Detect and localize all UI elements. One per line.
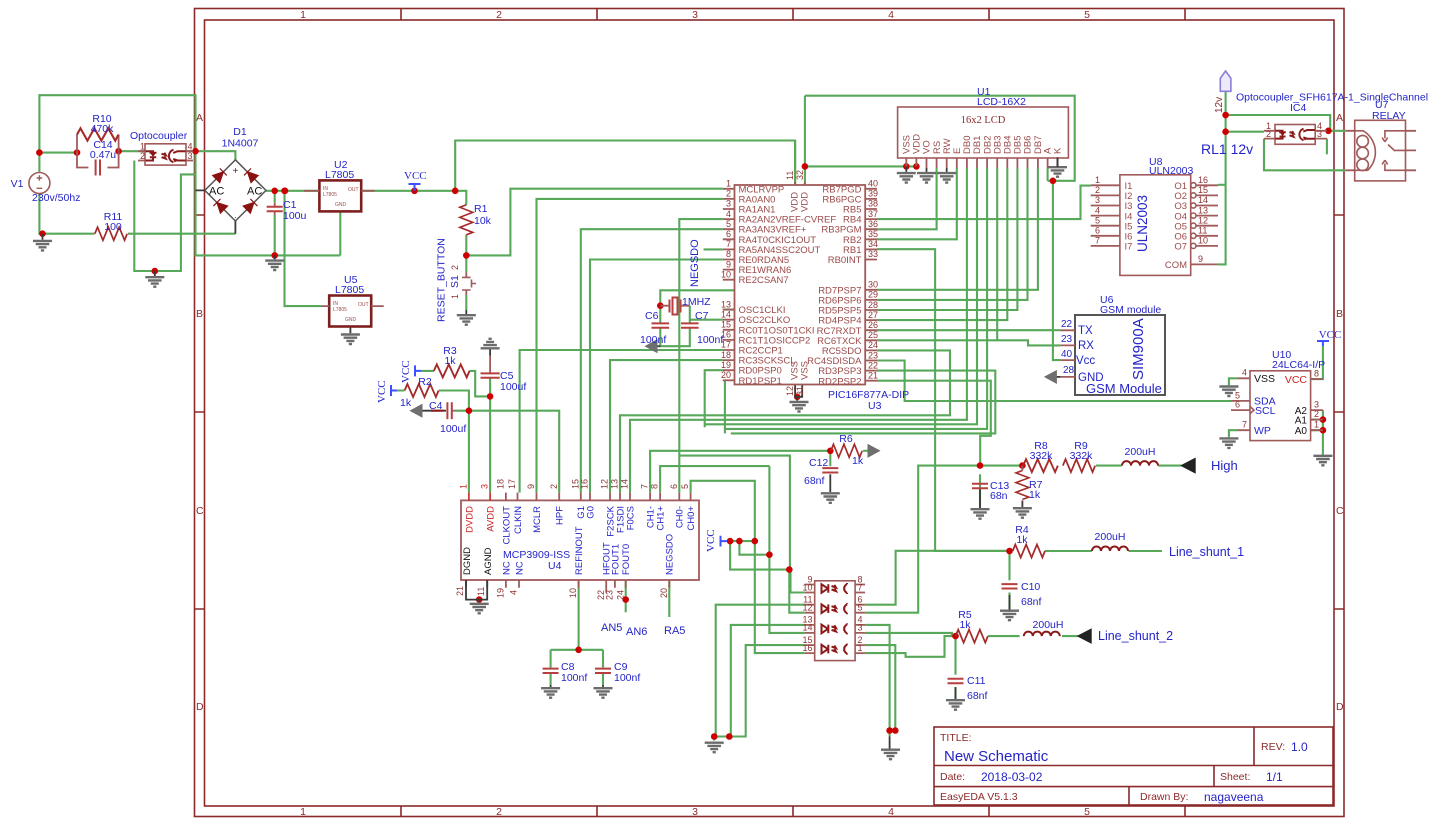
svg-text:14: 14 — [721, 309, 731, 319]
svg-text:CH0-: CH0- — [675, 506, 686, 528]
svg-text:1: 1 — [1095, 175, 1100, 185]
wire net K down to GSM Vcc — [1053, 181, 1061, 360]
svg-text:COM: COM — [1165, 260, 1187, 271]
svg-text:5: 5 — [1084, 806, 1090, 818]
svg-text:VSS: VSS — [799, 361, 810, 380]
svg-text:G0: G0 — [585, 506, 596, 519]
ground LCD VSS — [897, 166, 916, 182]
svg-text:2: 2 — [1266, 129, 1271, 139]
svg-text:3: 3 — [1314, 400, 1319, 410]
wire PIC pin34 RB1 down to R4 — [877, 249, 1010, 551]
wire C6 top to crystal left — [659, 306, 661, 324]
svg-text:17: 17 — [507, 479, 517, 489]
svg-text:RD1PSP1: RD1PSP1 — [739, 376, 782, 387]
svg-text:DGND: DGND — [462, 547, 473, 575]
svg-text:200uH: 200uH — [1125, 446, 1156, 458]
capacitor C13 — [972, 480, 1009, 502]
svg-text:0.47u: 0.47u — [90, 149, 116, 161]
svg-text:3: 3 — [692, 9, 698, 21]
svg-text:RB0INT: RB0INT — [828, 255, 862, 266]
wire PIC pin37 RB4 to ULN I1 — [877, 186, 1091, 220]
resistor R3 — [434, 345, 470, 377]
wire PIC pin8 RE0 down to G0 — [590, 260, 723, 493]
svg-text:1k: 1k — [959, 619, 971, 631]
svg-text:10: 10 — [721, 269, 731, 279]
svg-text:RA5: RA5 — [664, 625, 685, 637]
svg-text:A: A — [1336, 112, 1343, 124]
svg-text:5: 5 — [726, 219, 731, 229]
border frame outer — [195, 9, 1345, 817]
capacitor C14 — [77, 139, 119, 176]
svg-text:12: 12 — [600, 479, 610, 489]
svg-text:1MHZ: 1MHZ — [682, 296, 711, 308]
svg-text:21: 21 — [455, 586, 465, 596]
svg-text:4: 4 — [726, 209, 731, 219]
svg-text:GSM Module: GSM Module — [1086, 381, 1162, 396]
wire 12v to IC4 pin4 relay wire — [1226, 115, 1331, 131]
ground quad left — [705, 743, 724, 753]
wire PIC VDD pin32 — [804, 166, 806, 185]
svg-text:O7: O7 — [1174, 242, 1187, 253]
switch S1 reset button — [436, 238, 477, 322]
svg-text:29: 29 — [868, 290, 878, 300]
svg-text:TX: TX — [1078, 325, 1093, 337]
svg-text:2018-03-02: 2018-03-02 — [981, 770, 1043, 784]
svg-text:2: 2 — [450, 265, 460, 270]
svg-text:5: 5 — [1084, 9, 1090, 21]
svg-text:470k: 470k — [91, 123, 115, 135]
ground C11 — [946, 687, 965, 710]
svg-text:3: 3 — [726, 199, 731, 209]
svg-text:30: 30 — [868, 280, 878, 290]
wire R5 chain — [988, 635, 1078, 637]
wire C10 stem — [1008, 551, 1010, 612]
wire 12v flag stem — [1218, 91, 1226, 264]
capacitor C9 — [595, 661, 640, 684]
left pin leads — [723, 189, 735, 380]
svg-text:4: 4 — [1095, 205, 1100, 215]
top VDD leads — [795, 182, 805, 185]
wire IC4 pin4 to relay — [1327, 130, 1346, 132]
svg-text:15: 15 — [1198, 185, 1208, 195]
svg-text:FOUT0: FOUT0 — [621, 544, 632, 575]
wire C4 node right to HPF — [455, 411, 559, 493]
svg-text:AC: AC — [209, 186, 224, 198]
svg-text:100nf: 100nf — [697, 334, 723, 346]
ground LCD K — [1048, 157, 1067, 177]
capacitor C6 — [640, 310, 669, 346]
svg-text:B: B — [196, 308, 203, 320]
wire bridge right to U2 IN — [266, 190, 319, 192]
net flag VCC (U10) — [1317, 329, 1341, 346]
svg-text:Vcc: Vcc — [1076, 355, 1095, 367]
svg-text:13: 13 — [721, 299, 731, 309]
wire ULN O1 to 12v stem — [1218, 184, 1226, 186]
net flag VCC (U4 cluster) — [705, 529, 727, 552]
svg-text:230v/50hz: 230v/50hz — [32, 192, 80, 204]
svg-text:Sheet:: Sheet: — [1220, 771, 1250, 783]
svg-text:6: 6 — [1095, 226, 1100, 236]
wire PIC pin23 SDA to U10 — [877, 361, 1231, 402]
svg-text:1k: 1k — [1029, 489, 1041, 501]
svg-text:28: 28 — [868, 300, 878, 310]
wire C14/R10 right node to optocoupler pin1 — [119, 150, 145, 152]
wire quad pin11 down — [716, 605, 805, 737]
svg-text:6: 6 — [1235, 400, 1240, 410]
svg-text:L7805: L7805 — [333, 307, 347, 313]
svg-text:68n: 68n — [990, 490, 1008, 502]
svg-text:MCLR: MCLR — [532, 506, 543, 533]
wire PIC pin26 TX — [877, 329, 1060, 331]
svg-text:OUT: OUT — [348, 187, 359, 193]
wire VCC node up to long top wire to PIC pin1 region — [455, 141, 795, 191]
svg-text:CLKOUT: CLKOUT — [501, 506, 512, 545]
ground LCD RW — [937, 168, 956, 183]
resistor R6 — [831, 433, 864, 467]
svg-text:C: C — [1336, 505, 1344, 517]
svg-text:High: High — [1211, 458, 1238, 473]
regulator U5 L7805 — [321, 274, 384, 327]
svg-text:9: 9 — [1198, 254, 1203, 264]
wire quad pin2 down to gnd — [865, 645, 895, 730]
svg-text:16: 16 — [802, 643, 812, 653]
top pin names rotated inside — [464, 505, 697, 544]
wire PIC pin4 RA2 down to CH0- — [679, 219, 790, 569]
wire top rail LCD to right 1074 — [805, 96, 1075, 181]
svg-text:C7: C7 — [695, 310, 709, 322]
svg-text:13: 13 — [1198, 205, 1208, 215]
svg-text:1: 1 — [726, 179, 731, 189]
svg-text:Line_shunt_2: Line_shunt_2 — [1098, 629, 1173, 643]
svg-text:4: 4 — [509, 590, 519, 595]
ground C8 — [541, 685, 560, 698]
svg-text:EasyEDA V5.1.3: EasyEDA V5.1.3 — [940, 791, 1018, 803]
svg-text:Date:: Date: — [940, 771, 965, 783]
svg-text:11: 11 — [1198, 226, 1207, 236]
svg-text:5: 5 — [1095, 215, 1100, 225]
svg-text:A1: A1 — [1295, 416, 1308, 427]
ground U10 A0A1A2 — [1313, 456, 1332, 466]
svg-text:RD2PSP2: RD2PSP2 — [818, 376, 861, 387]
wire crystal to OSC1 pin13 — [660, 290, 760, 309]
svg-text:11: 11 — [476, 587, 486, 596]
resistor R4 — [1013, 524, 1045, 558]
svg-text:26: 26 — [868, 320, 878, 330]
svg-text:FOUT1: FOUT1 — [610, 544, 621, 575]
svg-text:VCC: VCC — [1319, 329, 1342, 341]
ground opto net — [145, 271, 164, 287]
svg-text:GSM module: GSM module — [1100, 304, 1161, 316]
svg-text:VSS: VSS — [1254, 373, 1275, 385]
wire PIC pin25 RX — [877, 340, 1060, 345]
svg-text:12: 12 — [802, 603, 812, 613]
svg-text:12v: 12v — [1214, 97, 1225, 113]
svg-text:100nf: 100nf — [640, 334, 666, 346]
svg-text:1k: 1k — [1016, 534, 1028, 546]
capacitor C5 — [481, 356, 527, 394]
svg-text:200uH: 200uH — [1095, 531, 1126, 543]
ruler row ticks right — [1334, 215, 1344, 609]
svg-text:7: 7 — [1242, 420, 1247, 430]
net flag 12v — [1214, 71, 1231, 113]
svg-text:23: 23 — [1061, 334, 1073, 345]
wire C1 down to gnd wire — [274, 191, 276, 256]
svg-text:4: 4 — [1242, 368, 1247, 378]
ground arrow GSM GND — [1045, 371, 1061, 383]
svg-text:+: + — [232, 166, 238, 177]
wire PIC pin24 RC5 to bus F1SDI — [620, 350, 950, 492]
ground above C5 (inverted) — [481, 339, 500, 356]
wire U2 OUT to R1 top, VCC — [361, 191, 466, 205]
ruler numbers bottom — [300, 806, 1090, 818]
svg-text:20: 20 — [721, 370, 731, 380]
svg-text:.: . — [234, 210, 237, 220]
svg-text:WP: WP — [1254, 425, 1271, 437]
wire LCD DB4 to PIC pin27 — [877, 168, 1007, 320]
svg-text:31: 31 — [795, 386, 805, 396]
ground arrow C6 — [646, 340, 661, 352]
wire quad pin6 up to R4 line — [865, 551, 1009, 605]
svg-text:332k: 332k — [1030, 450, 1054, 462]
wire LCD DB7 to PIC pin30 — [877, 168, 1038, 290]
wire U2 GND down — [339, 211, 341, 255]
svg-text:1.0: 1.0 — [1291, 740, 1308, 754]
svg-text:Optocoupler: Optocoupler — [130, 130, 188, 142]
capacitor C11 — [948, 675, 988, 702]
ground U10 WP — [1219, 438, 1238, 448]
wire R2 to C4 node — [397, 391, 469, 411]
svg-text:VCC: VCC — [404, 170, 427, 182]
ground U5 — [341, 326, 360, 344]
svg-text:AN5: AN5 — [601, 622, 622, 634]
svg-text:LCD-16X2: LCD-16X2 — [977, 96, 1026, 108]
ground C12 — [821, 474, 840, 503]
wire LCD A pin down — [1047, 168, 1049, 181]
wire IC4 pin3 down — [1326, 139, 1328, 155]
svg-text:2: 2 — [1095, 185, 1100, 195]
wire quad pin1 to R5 via jog — [865, 636, 952, 657]
wire LCD DB1 down to bus — [705, 168, 977, 424]
wire optocoupler pin2 down and around — [134, 161, 195, 272]
svg-text:12: 12 — [785, 386, 795, 396]
svg-text:K: K — [1053, 147, 1064, 154]
svg-text:S1: S1 — [449, 275, 461, 288]
svg-text:D1: D1 — [233, 126, 247, 138]
ground U10 VSS — [1219, 387, 1238, 397]
svg-text:1k: 1k — [444, 355, 456, 367]
svg-text:7: 7 — [858, 582, 863, 592]
svg-text:11: 11 — [785, 171, 795, 180]
resistor R9 — [1063, 440, 1095, 472]
regulator U2 L7805 — [304, 159, 375, 212]
svg-text:CH0+: CH0+ — [686, 506, 697, 531]
svg-text:VDD: VDD — [799, 192, 810, 212]
arrow flag High — [1181, 458, 1238, 473]
svg-text:A0: A0 — [1295, 426, 1308, 437]
svg-text:SCL: SCL — [1255, 405, 1276, 417]
svg-text:100nf: 100nf — [561, 672, 587, 684]
wire U10 VSS to gnd — [1229, 378, 1238, 437]
svg-text:14: 14 — [620, 479, 630, 489]
svg-text:SIM900A: SIM900A — [1130, 318, 1147, 380]
wire PIC VDD pin11 — [794, 141, 796, 186]
wire LCD DB5 to PIC pin28 — [877, 168, 1017, 310]
crystal X1 1MHZ — [660, 296, 711, 315]
svg-text:8: 8 — [650, 484, 660, 489]
svg-text:15: 15 — [721, 320, 731, 330]
svg-text:RELAY: RELAY — [1372, 110, 1406, 122]
svg-text:12: 12 — [1198, 215, 1208, 225]
svg-text:23: 23 — [868, 350, 878, 360]
ground S1 — [457, 310, 476, 325]
svg-text:F0CS: F0CS — [625, 506, 636, 530]
wire C13 stem lower — [979, 474, 981, 510]
wire PIC pin19 RD0 down to bus — [705, 370, 723, 427]
wire High chain — [918, 466, 1022, 613]
svg-text:100uf: 100uf — [500, 381, 526, 393]
svg-text:40: 40 — [1061, 349, 1073, 360]
svg-text:D: D — [196, 701, 204, 713]
ground PIC VSS — [790, 385, 809, 412]
wire U10 A2 A1 A0 to gnd — [1311, 410, 1323, 455]
svg-text:6: 6 — [726, 229, 731, 239]
svg-text:1: 1 — [140, 142, 145, 152]
ground C10 — [1000, 595, 1019, 620]
wire LCD RS down to PIC pin36 — [877, 168, 937, 229]
svg-text:NEGSDO: NEGSDO — [689, 239, 701, 287]
svg-text:24: 24 — [615, 590, 625, 600]
svg-text:3: 3 — [692, 806, 698, 818]
wire crystal right to OSC2 pin14 — [690, 306, 723, 324]
title block — [934, 727, 1333, 805]
ground C1 — [265, 255, 284, 270]
wire LCD E down to PIC pin35 — [877, 168, 957, 239]
svg-text:22: 22 — [868, 360, 878, 370]
svg-text:L7805: L7805 — [335, 284, 364, 296]
wire VCC top rail to LCD VDD — [805, 96, 917, 167]
svg-text:VCC: VCC — [376, 380, 388, 403]
wire U4 NEGSDO stub — [668, 580, 670, 617]
svg-text:10k: 10k — [474, 215, 492, 227]
diode bridge D1 — [196, 126, 267, 234]
wire C12 stem — [829, 451, 831, 466]
wire PIC pin20 RD1 down to bus — [724, 380, 726, 433]
svg-text:C: C — [196, 505, 204, 517]
resistor R11 — [94, 211, 128, 240]
svg-text:V1: V1 — [11, 178, 24, 190]
net flag VCC (R2) — [376, 380, 397, 403]
svg-text:AN6: AN6 — [626, 626, 647, 638]
svg-text:1N4007: 1N4007 — [222, 138, 259, 150]
svg-text:33: 33 — [868, 249, 878, 259]
wire PIC pin21 down to C13/High — [877, 381, 991, 466]
svg-text:1: 1 — [300, 9, 306, 21]
svg-text:10: 10 — [1198, 236, 1208, 246]
svg-text:U4: U4 — [548, 560, 562, 572]
svg-text:1/1: 1/1 — [1266, 770, 1283, 784]
wire U4 FOUT0 stub — [625, 580, 627, 612]
svg-text:AC: AC — [247, 186, 262, 198]
svg-text:9: 9 — [726, 259, 731, 269]
wire CH1- up to R6 — [650, 451, 830, 493]
svg-text:nagaveena: nagaveena — [1204, 790, 1264, 804]
ruler letters — [196, 112, 1344, 713]
svg-text:39: 39 — [868, 189, 878, 199]
svg-text:DVDD: DVDD — [464, 506, 475, 533]
ground V1 — [33, 234, 52, 251]
wire optocoupler pin4 to bridge top — [186, 151, 235, 160]
inductor L1 200uH — [1122, 446, 1158, 466]
capacitor C12 — [804, 457, 838, 487]
svg-text:AVDD: AVDD — [486, 506, 497, 532]
wire C6 C7 bottoms to gnd loop — [660, 328, 690, 347]
svg-text:3: 3 — [480, 484, 490, 489]
svg-text:6: 6 — [669, 484, 679, 489]
wire R9 to inductor to High arrow — [1096, 465, 1181, 467]
wire R6 right to gnd arrow — [863, 450, 871, 452]
ruler column ticks bottom — [401, 806, 1185, 817]
svg-text:13: 13 — [610, 479, 620, 489]
svg-text:4: 4 — [888, 806, 894, 818]
svg-text:REV:: REV: — [1261, 741, 1285, 753]
svg-text:24: 24 — [868, 340, 878, 350]
svg-text:CH1+: CH1+ — [656, 506, 667, 531]
svg-text:22: 22 — [1061, 319, 1073, 330]
optocoupler (top-left) — [130, 130, 193, 165]
svg-text:21: 21 — [868, 371, 878, 381]
bottom pin leads — [466, 580, 487, 587]
svg-text:16x2 LCD: 16x2 LCD — [961, 115, 1006, 126]
resistor R7 — [1016, 466, 1043, 501]
bottom pin numbers — [455, 586, 669, 600]
svg-text:C10: C10 — [1021, 581, 1040, 593]
svg-text:GND: GND — [345, 317, 357, 323]
ruler row ticks left — [195, 215, 205, 609]
ruler numbers top — [300, 9, 1090, 21]
svg-text:23: 23 — [605, 590, 615, 600]
wire R1 bottom to S1, to PIC MCLR pin1 — [466, 189, 723, 273]
svg-text:NC: NC — [501, 561, 512, 575]
svg-text:10: 10 — [568, 588, 578, 598]
wire quad pin4 down to gnd — [865, 625, 890, 731]
svg-text:200uH: 200uH — [1033, 619, 1064, 631]
svg-text:RL1 12v: RL1 12v — [1201, 141, 1253, 157]
svg-text:RESET_BUTTON: RESET_BUTTON — [436, 238, 448, 322]
svg-text:REFINOUT: REFINOUT — [574, 526, 585, 575]
wire PIC pin22 to bus — [731, 371, 996, 434]
wire quad pin3 to R5 — [865, 633, 955, 636]
svg-text:68nf: 68nf — [804, 475, 825, 487]
svg-text:7: 7 — [640, 484, 650, 489]
svg-text:VCC: VCC — [400, 360, 412, 383]
ground C9 — [594, 685, 613, 698]
svg-text:25: 25 — [868, 330, 878, 340]
svg-text:NEGSDO: NEGSDO — [665, 534, 676, 575]
svg-text:100: 100 — [104, 221, 122, 233]
svg-text:3: 3 — [188, 151, 193, 161]
wire PIC pin2 RA0 to MCLR of U4 — [537, 199, 723, 493]
resistor R1 — [460, 203, 492, 235]
svg-text:1k: 1k — [400, 397, 412, 409]
wire PIC pin17 RC2 to CLKIN — [520, 350, 723, 493]
wire PIC pin18 RC3 to F2SCK — [610, 360, 723, 493]
svg-text:A: A — [196, 112, 203, 124]
svg-text:2: 2 — [1314, 409, 1319, 419]
svg-text:NC: NC — [514, 561, 525, 575]
resistor R2 — [400, 376, 439, 409]
svg-text:332k: 332k — [1070, 450, 1094, 462]
svg-text:35: 35 — [868, 229, 878, 239]
